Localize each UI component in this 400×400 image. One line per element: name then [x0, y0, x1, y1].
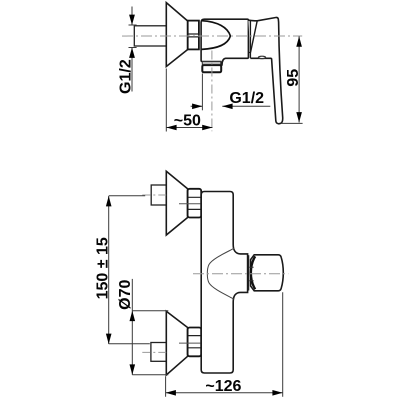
svg-text:95: 95 [285, 69, 302, 87]
svg-text:150 ± 15: 150 ± 15 [95, 237, 112, 299]
svg-text:Ø70: Ø70 [117, 279, 134, 309]
svg-text:~50: ~50 [174, 113, 201, 130]
svg-text:G1/2: G1/2 [118, 59, 135, 94]
svg-text:~126: ~126 [205, 378, 241, 395]
svg-text:G1/2: G1/2 [229, 90, 264, 107]
